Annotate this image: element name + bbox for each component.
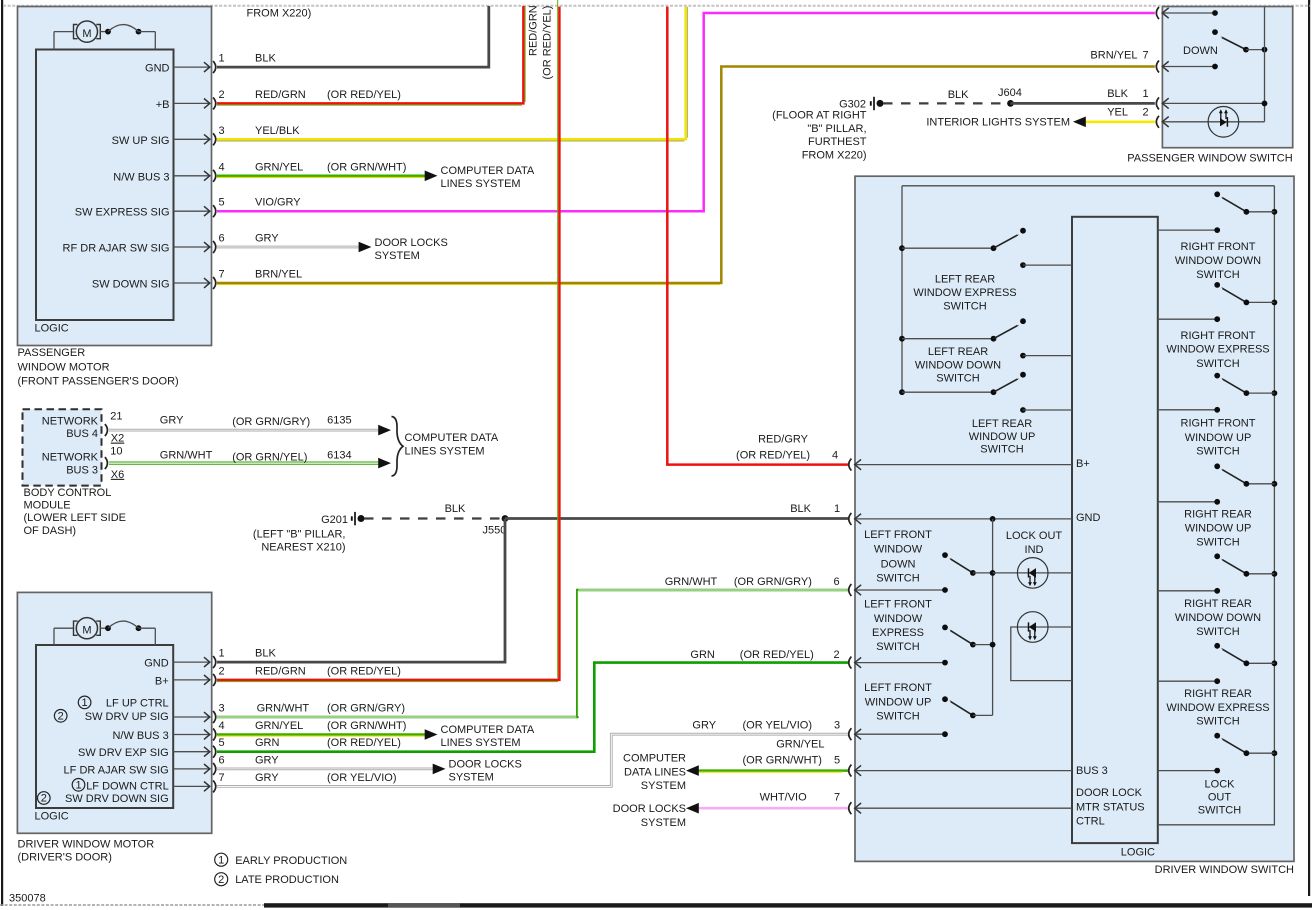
svg-text:COMPUTER DATA: COMPUTER DATA (441, 165, 535, 177)
left front window express switch label (864, 599, 932, 654)
svg-text:LF DOWN CTRL: LF DOWN CTRL (86, 780, 169, 792)
passenger window switch box (1162, 7, 1292, 148)
svg-text:LOGIC: LOGIC (1121, 846, 1155, 858)
svg-text:DOWN: DOWN (881, 558, 916, 570)
page left border (1, 0, 3, 906)
svg-text:RIGHT FRONT: RIGHT FRONT (1181, 241, 1256, 253)
svg-text:OF DASH): OF DASH) (24, 525, 77, 537)
svg-text:DOOR LOCKS: DOOR LOCKS (375, 237, 448, 249)
svg-text:4: 4 (832, 449, 838, 461)
driver switch connector pin 6 (849, 584, 948, 596)
svg-text:DRIVER WINDOW SWITCH: DRIVER WINDOW SWITCH (1155, 864, 1294, 876)
svg-text:RED/GRY: RED/GRY (758, 434, 809, 446)
right front window down switch contact arm (1214, 191, 1277, 214)
passenger switch connector pin BRN/YEL 7 (1156, 61, 1218, 73)
svg-text:LINES SYSTEM: LINES SYSTEM (441, 737, 521, 749)
svg-text:RIGHT REAR: RIGHT REAR (1184, 509, 1252, 521)
svg-text:LOGIC: LOGIC (35, 811, 69, 823)
svg-text:PASSENGER: PASSENGER (18, 347, 86, 359)
svg-text:SWITCH: SWITCH (876, 572, 919, 584)
left front window up switch (942, 696, 993, 718)
legend circled 1 (215, 853, 228, 866)
left rear window up switch label (969, 418, 1036, 455)
svg-text:GRN: GRN (255, 737, 280, 749)
svg-text:BUS 4: BUS 4 (66, 428, 98, 440)
svg-text:2: 2 (219, 89, 225, 101)
wire GRY driver motor pin7 to driver switch pin3 (217, 734, 848, 786)
svg-text:FROM X220): FROM X220) (802, 149, 867, 161)
svg-text:2: 2 (58, 711, 64, 723)
label FROM X220 top (247, 8, 312, 20)
rotated label (OR RED/YEL) (542, 6, 554, 80)
lock out indicator LED1 (1017, 558, 1048, 589)
passenger motor pin 4 N/W BUS 3 (113, 161, 224, 183)
svg-text:OUT: OUT (1208, 791, 1232, 803)
svg-text:(LOWER LEFT SIDE: (LOWER LEFT SIDE (24, 512, 126, 524)
label RIGHT FRONT WINDOW UP (1181, 418, 1256, 458)
label GRN 2 at driver switch (690, 649, 839, 661)
svg-text:RIGHT REAR: RIGHT REAR (1184, 688, 1252, 700)
svg-text:WINDOW MOTOR: WINDOW MOTOR (18, 362, 110, 374)
svg-text:6: 6 (219, 233, 225, 245)
right front window up switch contact wire (1158, 407, 1220, 413)
svg-text:X6: X6 (111, 469, 124, 481)
wire GRN/YEL passenger motor pin4 to computer data lines arrow (217, 161, 438, 181)
svg-text:CTRL: CTRL (1076, 816, 1105, 828)
svg-text:GRY: GRY (255, 772, 279, 784)
right rear window down switch contact arm (1214, 553, 1277, 576)
passenger motor pin 1 GND (145, 53, 225, 75)
svg-text:B+: B+ (1076, 458, 1090, 470)
passenger window switch caption (1127, 153, 1292, 165)
svg-text:(OR RED/YEL): (OR RED/YEL) (327, 89, 401, 101)
svg-text:COMPUTER DATA: COMPUTER DATA (441, 724, 535, 736)
svg-text:SWITCH: SWITCH (1196, 358, 1239, 370)
svg-text:N/W BUS 3: N/W BUS 3 (112, 730, 168, 742)
svg-text:WINDOW UP: WINDOW UP (1185, 432, 1252, 444)
wire RED/GRY from top to driver switch pin4 (667, 7, 848, 465)
left front switch bus (992, 519, 994, 716)
label BLK 1 passenger switch (1107, 88, 1148, 100)
label GRY 3 at driver switch (692, 720, 840, 732)
svg-text:BRN/YEL: BRN/YEL (1090, 50, 1137, 62)
svg-text:(OR YEL/VIO): (OR YEL/VIO) (327, 772, 396, 784)
wire VIO/GRY passenger motor pin5 to passenger switch (217, 13, 1155, 211)
svg-text:(OR GRN/WHT): (OR GRN/WHT) (327, 161, 406, 173)
wire GRN driver motor pin5 to driver switch pin2 (217, 663, 848, 752)
svg-text:GRY: GRY (692, 720, 716, 732)
wire RED/GRN driver motor pin2 to top (217, 0, 559, 682)
svg-text:YEL/BLK: YEL/BLK (255, 125, 300, 137)
svg-text:SWITCH: SWITCH (876, 710, 919, 722)
right rear window express switch contact arm (1214, 643, 1277, 666)
driver switch connector pin 5 BUS 3 (849, 765, 1108, 778)
svg-text:SWITCH: SWITCH (936, 372, 979, 384)
svg-text:DOOR LOCKS: DOOR LOCKS (613, 803, 686, 815)
svg-text:RED/GRN: RED/GRN (255, 89, 306, 101)
svg-text:SW UP SIG: SW UP SIG (112, 135, 170, 147)
svg-text:10: 10 (110, 446, 122, 458)
svg-text:N/W BUS 3: N/W BUS 3 (113, 171, 169, 183)
label GRN/WHT 6 at driver switch (665, 576, 840, 588)
svg-text:BLK: BLK (790, 503, 811, 515)
page bottom black bar (264, 903, 1312, 907)
svg-text:(OR YEL/VIO): (OR YEL/VIO) (743, 720, 812, 732)
left front window up switch label (864, 682, 932, 722)
svg-text:M: M (82, 28, 91, 40)
right front window express switch contact arm (1214, 282, 1277, 305)
svg-text:(OR GRN/GRY): (OR GRN/GRY) (232, 416, 310, 428)
svg-text:(OR GRN/YEL): (OR GRN/YEL) (232, 452, 307, 464)
svg-text:LF UP CTRL: LF UP CTRL (106, 698, 169, 710)
ground G201 (321, 512, 364, 526)
driver switch connector pin 7 DOOR LOCK MTR STATUS CTRL (849, 787, 1145, 828)
svg-text:BLK: BLK (948, 89, 969, 101)
computer data lines system label (BCM) (405, 432, 499, 457)
driver window switch box (855, 176, 1294, 861)
svg-text:(FLOOR AT RIGHT: (FLOOR AT RIGHT (772, 110, 867, 122)
BCM pin NETWORK BUS 3 (42, 446, 125, 481)
passenger switch connector pin BLK 1 (1156, 97, 1267, 109)
svg-text:EARLY PRODUCTION: EARLY PRODUCTION (235, 855, 347, 867)
wire BLK passenger motor pin1 to top (217, 6, 489, 67)
svg-text:INTERIOR LIGHTS SYSTEM: INTERIOR LIGHTS SYSTEM (926, 116, 1070, 128)
passenger switch DOWN label (1183, 45, 1218, 57)
svg-text:SW DRV EXP SIG: SW DRV EXP SIG (78, 747, 169, 759)
svg-text:SWITCH: SWITCH (1196, 715, 1239, 727)
wire BRN/YEL passenger motor pin7 to passenger switch pin7 (217, 67, 1155, 285)
svg-text:DOOR LOCK: DOOR LOCK (1076, 787, 1143, 799)
right rear window up switch contact wire (1158, 499, 1220, 505)
wire GRY BCM bus4 to computer data lines (109, 415, 391, 436)
right front window express switch contact wire (1158, 316, 1220, 322)
svg-text:3: 3 (219, 125, 225, 137)
passenger switch vertical bus (1264, 7, 1266, 122)
driver switch logic box (1072, 217, 1158, 859)
passenger motor pin 2 +B (156, 89, 225, 111)
svg-text:4: 4 (219, 161, 225, 173)
svg-text:2: 2 (218, 874, 224, 886)
left front window down switch label (864, 529, 932, 584)
ground G201 caption (253, 529, 346, 554)
passenger motor pin 5 SW EXPRESS SIG (75, 197, 225, 219)
door locks system label (driver motor) (449, 758, 522, 783)
svg-text:(OR GRN/GRY): (OR GRN/GRY) (734, 576, 812, 588)
svg-text:GRN/YEL: GRN/YEL (255, 161, 303, 173)
svg-text:SWITCH: SWITCH (1196, 446, 1239, 458)
svg-text:BLK: BLK (1107, 88, 1128, 100)
svg-text:FURTHEST: FURTHEST (808, 136, 867, 148)
svg-text:SYSTEM: SYSTEM (641, 817, 686, 829)
svg-text:1: 1 (219, 53, 225, 65)
label RIGHT REAR WINDOW DOWN (1175, 598, 1261, 638)
svg-text:LEFT FRONT: LEFT FRONT (864, 682, 932, 694)
svg-text:B+: B+ (155, 675, 169, 687)
left rear window down switch label (915, 346, 1001, 384)
svg-text:BRN/YEL: BRN/YEL (255, 269, 302, 281)
svg-text:J604: J604 (998, 87, 1022, 99)
right front window up switch contact arm (1214, 373, 1277, 396)
svg-text:(OR RED/YEL): (OR RED/YEL) (327, 737, 401, 749)
driver switch connector pin 4 B+ (849, 458, 1090, 471)
svg-text:BLK: BLK (445, 503, 466, 515)
label YEL 2 passenger switch (1107, 107, 1148, 119)
left rear window express switch label (913, 274, 1016, 313)
driver motor pin 5 (78, 737, 225, 759)
svg-text:1: 1 (219, 648, 225, 660)
lock out indicator LED1 wire (993, 572, 1072, 574)
page bottom thin line (0, 904, 264, 906)
svg-text:LOCK OUT: LOCK OUT (1006, 530, 1063, 542)
left front window down switch (942, 552, 995, 576)
svg-text:X2: X2 (111, 433, 124, 445)
svg-text:350078: 350078 (9, 893, 46, 905)
driver switch connector pin 1 GND (849, 512, 1101, 525)
svg-text:SWITCH: SWITCH (1196, 626, 1239, 638)
svg-text:GND: GND (145, 63, 170, 75)
svg-text:GRN/YEL: GRN/YEL (776, 739, 824, 751)
svg-text:(LEFT "B" PILLAR,: (LEFT "B" PILLAR, (253, 529, 346, 541)
svg-text:RIGHT FRONT: RIGHT FRONT (1181, 330, 1256, 342)
svg-text:SYSTEM: SYSTEM (641, 780, 686, 792)
wire GRN/YEL driver motor pin4 to computer data lines arrow (217, 720, 438, 740)
svg-text:1: 1 (834, 503, 840, 515)
svg-text:(OR GRN/GRY): (OR GRN/GRY) (327, 703, 405, 715)
svg-text:COMPUTER DATA: COMPUTER DATA (405, 432, 499, 444)
svg-text:GRY: GRY (160, 415, 184, 427)
computer data lines system brace (392, 417, 404, 477)
svg-text:(DRIVER'S DOOR): (DRIVER'S DOOR) (18, 851, 112, 863)
circled 2 marker SW DRV UP SIG (54, 710, 67, 723)
svg-text:21: 21 (110, 410, 122, 422)
svg-text:WINDOW UP: WINDOW UP (865, 696, 932, 708)
svg-text:DRIVER WINDOW MOTOR: DRIVER WINDOW MOTOR (18, 838, 155, 850)
wire GRN/WHT BCM bus3 to computer data lines (109, 450, 391, 469)
rotated label RED/GRN (528, 5, 540, 56)
svg-text:LEFT REAR: LEFT REAR (972, 418, 1032, 430)
svg-text:LEFT REAR: LEFT REAR (928, 346, 988, 358)
svg-text:2: 2 (219, 665, 225, 677)
svg-text:6: 6 (219, 754, 225, 766)
svg-text:WINDOW: WINDOW (874, 613, 923, 625)
svg-text:1: 1 (1143, 88, 1149, 100)
svg-text:5: 5 (219, 197, 225, 209)
svg-text:LF DR AJAR SW SIG: LF DR AJAR SW SIG (64, 764, 169, 776)
svg-text:WINDOW DOWN: WINDOW DOWN (915, 359, 1001, 371)
svg-text:DOOR LOCKS: DOOR LOCKS (449, 758, 522, 770)
svg-text:SYSTEM: SYSTEM (375, 250, 420, 262)
right rear window down switch contact wire (1158, 588, 1220, 594)
svg-text:SW DRV UP SIG: SW DRV UP SIG (85, 711, 169, 723)
driver motor pin 1 (144, 648, 224, 670)
driver motor logic box (35, 645, 174, 823)
BCM pin NETWORK BUS 4 (42, 410, 125, 444)
svg-text:RED/GRN: RED/GRN (528, 5, 540, 56)
LED2 wire loop (1011, 627, 1072, 681)
sheet number 350078 (9, 893, 46, 905)
svg-text:"B" PILLAR,: "B" PILLAR, (807, 123, 866, 135)
driver switch top bus wire (902, 185, 1274, 187)
wire BLK dashed G302 to J604 (883, 89, 1011, 103)
driver window switch caption (1155, 864, 1294, 876)
svg-text:LOCK: LOCK (1205, 778, 1236, 790)
svg-text:GRY: GRY (255, 233, 279, 245)
svg-text:LINES SYSTEM: LINES SYSTEM (441, 178, 521, 190)
driver switch connector pin 3 (849, 728, 948, 740)
wire WHT/VIO driver switch pin7 to door locks arrow (686, 791, 848, 813)
svg-text:WHT/VIO: WHT/VIO (760, 791, 807, 803)
svg-text:(OR GRN/WHT): (OR GRN/WHT) (743, 755, 822, 767)
lock out switch contact wire (1158, 768, 1220, 774)
passenger motor pin 7 SW DOWN SIG (92, 269, 225, 291)
label RIGHT REAR WINDOW EXPRESS (1166, 688, 1269, 727)
driver switch right bus wire (1158, 186, 1275, 825)
driver motor pin 4 (112, 720, 224, 742)
svg-text:5: 5 (219, 737, 225, 749)
svg-text:WINDOW UP: WINDOW UP (1185, 523, 1252, 535)
svg-text:BUS 3: BUS 3 (66, 464, 98, 476)
svg-text:COMPUTER: COMPUTER (623, 753, 686, 765)
BCM caption (24, 487, 126, 537)
motor switch contact dots and arc (105, 25, 155, 50)
svg-text:IND: IND (1025, 544, 1044, 556)
svg-text:BLK: BLK (255, 53, 276, 65)
svg-text:7: 7 (219, 772, 225, 784)
svg-text:6: 6 (834, 576, 840, 588)
driver window motor caption (18, 838, 155, 863)
computer data lines system label (driver switch) (623, 753, 686, 793)
svg-text:NETWORK: NETWORK (42, 452, 99, 464)
page right border (1308, 0, 1310, 896)
svg-text:GRY: GRY (255, 754, 279, 766)
svg-text:2: 2 (41, 793, 47, 805)
passenger motor pin 6 RF DR AJAR SW SIG (63, 233, 225, 255)
wire YEL to interior lights system (926, 116, 1154, 128)
legend EARLY PRODUCTION (235, 855, 347, 867)
svg-text:SWITCH: SWITCH (943, 300, 986, 312)
svg-text:WINDOW: WINDOW (874, 544, 923, 556)
svg-text:6134: 6134 (327, 450, 351, 462)
svg-text:6135: 6135 (327, 415, 351, 427)
svg-text:WINDOW UP: WINDOW UP (969, 431, 1036, 443)
wire BLK J604 to passenger switch pin1 (1011, 102, 1155, 105)
svg-text:(OR GRN/WHT): (OR GRN/WHT) (327, 720, 406, 732)
wire RED/GRN passenger motor pin2 to top (217, 6, 525, 105)
ground G302 (839, 97, 883, 111)
wire GRN/YEL driver switch pin5 to computer data lines arrow (686, 739, 848, 776)
svg-text:RF DR AJAR SW SIG: RF DR AJAR SW SIG (63, 243, 170, 255)
passenger switch LED indicator (1208, 107, 1239, 138)
legend LATE PRODUCTION (235, 874, 339, 886)
lock out switch contact arm (1214, 733, 1277, 756)
label RIGHT REAR WINDOW UP (1184, 509, 1252, 549)
svg-text:SYSTEM: SYSTEM (449, 771, 494, 783)
label BRN/YEL 7 at passenger switch (1090, 50, 1148, 62)
left rear window up switch (899, 372, 1072, 413)
svg-text:J550: J550 (483, 525, 507, 537)
svg-text:LINES SYSTEM: LINES SYSTEM (405, 445, 485, 457)
driver switch connector pin 2 (849, 657, 948, 669)
svg-text:7: 7 (1143, 50, 1149, 62)
passenger window motor block (18, 7, 212, 346)
passenger switch connector pin YEL 2 (1156, 116, 1264, 128)
passenger motor logic box (35, 50, 174, 335)
svg-text:+B: +B (156, 99, 170, 111)
svg-text:YEL: YEL (1107, 107, 1128, 119)
wire GRN/WHT driver motor pin3 to driver switch pin6 (217, 590, 848, 717)
svg-text:1: 1 (82, 697, 88, 709)
svg-text:LOGIC: LOGIC (35, 323, 69, 335)
circled 1 marker LF UP CTRL (78, 696, 91, 709)
passenger switch connector pin VIO/GRY (top) (1156, 7, 1168, 19)
right front window down switch contact wire (1158, 227, 1220, 233)
svg-text:WINDOW EXPRESS: WINDOW EXPRESS (1166, 702, 1269, 714)
driver motor pin 2 (155, 665, 225, 687)
svg-text:3: 3 (834, 720, 840, 732)
svg-text:VIO/GRY: VIO/GRY (255, 197, 301, 209)
label RIGHT FRONT WINDOW EXPRESS (1166, 330, 1269, 370)
door locks system label (passenger) (375, 237, 448, 262)
lock out ind label (1006, 530, 1063, 556)
svg-text:G201: G201 (321, 514, 348, 526)
svg-text:SWITCH: SWITCH (876, 641, 919, 653)
svg-text:RIGHT FRONT: RIGHT FRONT (1181, 418, 1256, 430)
computer data lines system label (passenger) (441, 165, 535, 190)
driver motor switch contact dots and arc (105, 621, 155, 645)
svg-text:MODULE: MODULE (24, 500, 71, 512)
svg-text:WINDOW DOWN: WINDOW DOWN (1175, 255, 1261, 267)
svg-text:EXPRESS: EXPRESS (872, 627, 924, 639)
svg-text:5: 5 (834, 755, 840, 767)
svg-text:4: 4 (219, 720, 225, 732)
svg-text:BODY CONTROL: BODY CONTROL (24, 487, 112, 499)
svg-text:SWITCH: SWITCH (1196, 537, 1239, 549)
svg-text:BLK: BLK (255, 648, 276, 660)
svg-text:(OR RED/YEL): (OR RED/YEL) (740, 649, 814, 661)
driver motor pin 6 (64, 754, 225, 776)
svg-text:SWITCH: SWITCH (1196, 269, 1239, 281)
svg-text:WINDOW EXPRESS: WINDOW EXPRESS (913, 287, 1016, 299)
wire BLK J550 down to driver motor pin1 (217, 519, 505, 663)
svg-text:3: 3 (219, 703, 225, 715)
circled 1 marker LF DOWN CTRL (72, 779, 85, 792)
svg-text:1: 1 (218, 855, 224, 867)
wire YEL/BLK passenger motor pin3 to top (217, 7, 687, 141)
svg-text:NEAREST X210): NEAREST X210) (261, 542, 345, 554)
circled 2 marker SW DRV DOWN SIG (38, 792, 51, 805)
passenger switch arm (1222, 38, 1267, 53)
door locks system label (driver switch) (613, 803, 686, 829)
passenger switch internal wire top pin (1164, 10, 1218, 16)
svg-text:2: 2 (834, 649, 840, 661)
svg-text:BUS 3: BUS 3 (1076, 765, 1108, 777)
right rear window up switch contact arm (1214, 463, 1277, 486)
svg-text:LEFT FRONT: LEFT FRONT (864, 599, 932, 611)
svg-text:WINDOW DOWN: WINDOW DOWN (1175, 612, 1261, 624)
svg-text:7: 7 (219, 269, 225, 281)
junction J550 (483, 515, 509, 536)
svg-text:7: 7 (834, 791, 840, 803)
svg-text:RED/GRN: RED/GRN (255, 665, 306, 677)
svg-text:SW DRV DOWN SIG: SW DRV DOWN SIG (65, 793, 169, 805)
wire GRY passenger motor pin6 to door locks arrow (217, 233, 371, 253)
svg-text:PASSENGER WINDOW SWITCH: PASSENGER WINDOW SWITCH (1127, 153, 1292, 165)
svg-text:LEFT FRONT: LEFT FRONT (864, 529, 932, 541)
driver window motor block (17, 592, 211, 833)
lock out indicator LED2 (1017, 612, 1048, 643)
svg-text:2: 2 (1143, 107, 1149, 119)
svg-text:NETWORK: NETWORK (42, 415, 99, 427)
